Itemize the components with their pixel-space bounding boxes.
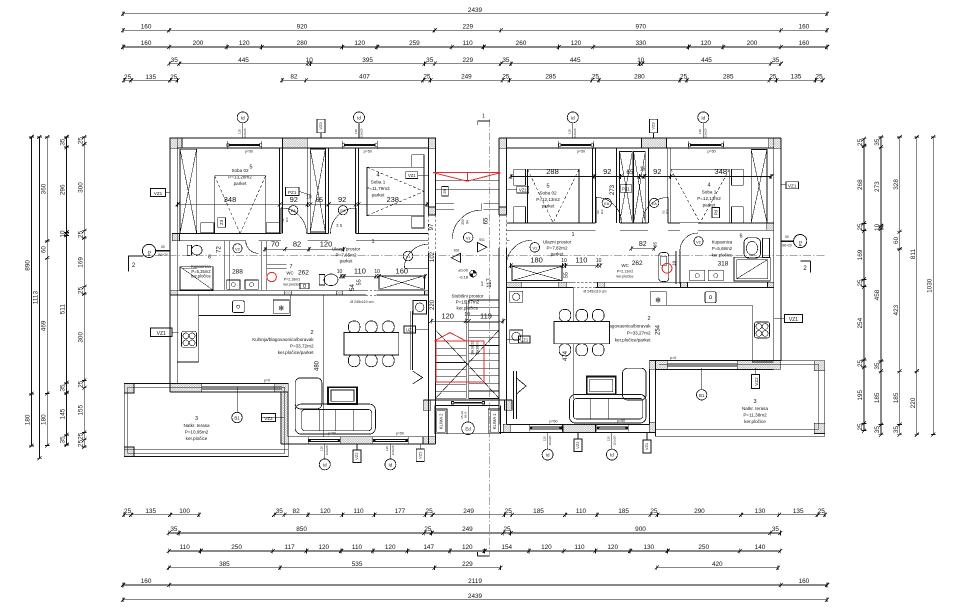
svg-text:445: 445 [701, 57, 712, 64]
circle marker EA right 1 [602, 198, 611, 207]
svg-text:72: 72 [217, 246, 223, 253]
svg-text:110x20: 110x20 [325, 445, 329, 455]
svg-text:3: 3 [753, 399, 756, 405]
label VZ1 left wall [151, 189, 171, 197]
room label Stubisni prostor [451, 282, 483, 311]
svg-text:P2: P2 [147, 250, 152, 256]
svg-text:82: 82 [293, 240, 301, 249]
window right living south 1 [530, 426, 563, 428]
svg-text:249: 249 [462, 526, 473, 533]
svg-text:6: 6 [739, 234, 742, 240]
svg-text:35: 35 [874, 426, 881, 434]
svg-text:parket: parket [703, 203, 716, 208]
svg-text:120: 120 [320, 508, 331, 515]
svg-text:407: 407 [359, 74, 370, 81]
svg-text:249: 249 [463, 508, 474, 515]
svg-text:120: 120 [541, 544, 552, 551]
svg-text:VZ3: VZ3 [318, 122, 323, 130]
svg-text:154: 154 [501, 544, 512, 551]
svg-text:900: 900 [635, 526, 646, 533]
WC room west wall left unit [262, 241, 267, 290]
svg-text:177: 177 [395, 508, 406, 515]
p=50 labels left living south windows [328, 432, 404, 436]
svg-text:P=7,65m2: P=7,65m2 [335, 253, 357, 258]
svg-text:P2: P2 [798, 240, 803, 246]
svg-text:Natkr. terasa: Natkr. terasa [742, 406, 768, 411]
WC pan right unit [659, 253, 669, 282]
label VZ1 kitchen left [151, 328, 179, 337]
svg-text:120: 120 [607, 544, 618, 551]
svg-text:229: 229 [462, 561, 473, 568]
svg-text:B1: B1 [699, 393, 705, 398]
svg-text:180: 180 [40, 414, 47, 425]
svg-text:82: 82 [290, 74, 298, 81]
room label Soba1 right unit [697, 183, 721, 208]
svg-text:318: 318 [718, 261, 729, 268]
svg-text:262: 262 [298, 270, 309, 277]
svg-text:35: 35 [171, 57, 179, 64]
svg-text:P=2,18m2: P=2,18m2 [284, 278, 300, 282]
svg-text:120: 120 [354, 40, 365, 47]
svg-text:110: 110 [463, 40, 474, 47]
section line 1 vertical dash-dot [477, 114, 490, 556]
label ZN rotated porch [442, 187, 449, 197]
dimension chain bottom rowA main [272, 508, 827, 517]
svg-text:920: 920 [297, 24, 308, 31]
svg-text:100: 100 [179, 508, 190, 515]
svg-text:160: 160 [141, 40, 152, 47]
svg-text:10: 10 [561, 258, 567, 264]
exterior wall right [780, 138, 782, 361]
circle marker V1 right [530, 243, 540, 253]
svg-text:10: 10 [637, 57, 645, 64]
wall bedrooms-hall left unit [172, 234, 428, 241]
svg-text:VZ1: VZ1 [788, 183, 797, 188]
left unit east-lower wall [281, 392, 288, 444]
svg-text:249: 249 [461, 74, 472, 81]
svg-text:Kupaonica: Kupaonica [712, 239, 733, 244]
bathroom wall left unit [224, 241, 229, 290]
label VZ2 rotated bottom right unit [574, 432, 582, 451]
svg-text:ker.pločice: ker.pločice [186, 436, 208, 441]
TV shelf right unit [514, 371, 527, 419]
svg-text:328: 328 [893, 179, 900, 190]
label PZ1 left unit [286, 187, 311, 195]
klima size note rotated [460, 411, 467, 419]
label UZ1 right [506, 336, 530, 343]
svg-text:160: 160 [799, 24, 810, 31]
kitchen wall right unit [506, 282, 773, 287]
svg-text:423: 423 [893, 304, 900, 315]
svg-text:1: 1 [371, 239, 374, 245]
svg-text:1: 1 [482, 549, 485, 555]
dimension chain top row1 total 2439 [121, 7, 829, 16]
left living south wall band [281, 437, 436, 444]
dimension chain top row3 [121, 40, 829, 49]
circle marker V2 left [233, 244, 242, 253]
svg-text:130: 130 [643, 544, 654, 551]
closet X box right hall [512, 266, 562, 280]
svg-text:PZ1: PZ1 [622, 187, 630, 192]
svg-text:25: 25 [857, 138, 864, 146]
svg-text:Id: Id [701, 115, 705, 120]
kitchen hob 4 circles left unit [182, 331, 197, 347]
p=50 labels right living south windows [549, 419, 625, 424]
svg-text:92: 92 [603, 167, 611, 176]
svg-text:25: 25 [769, 74, 777, 81]
svg-text:10: 10 [874, 223, 881, 231]
nightstand bottom Soba1 right [731, 207, 743, 223]
label VZ2 rotated bottom 1 [353, 444, 361, 463]
svg-text:Ulazni prostor: Ulazni prostor [543, 240, 572, 245]
svg-text:25: 25 [650, 508, 658, 515]
window in stair south wall [451, 401, 485, 404]
dimension chain right col1 [857, 137, 866, 433]
svg-text:Id: Id [389, 462, 393, 467]
svg-text:200: 200 [747, 40, 758, 47]
svg-text:169: 169 [78, 257, 85, 268]
svg-text:120: 120 [542, 436, 546, 441]
svg-text:V1: V1 [532, 246, 537, 250]
left terrace outline [124, 384, 288, 457]
svg-text:16: 16 [640, 166, 646, 172]
label VZ2 right terrace rotated [752, 368, 760, 389]
dimension row hall bottom left unit [337, 266, 427, 278]
hatched pier left living south-east corner [423, 437, 436, 444]
svg-text:1: 1 [571, 232, 574, 238]
svg-text:10: 10 [337, 269, 343, 275]
svg-text:Id: Id [610, 453, 614, 458]
svg-text:10: 10 [306, 57, 314, 64]
svg-text:145: 145 [60, 408, 67, 419]
partition Soba1 west right unit [668, 148, 671, 223]
left terrace column SW [124, 447, 134, 457]
red pipe circle left unit [267, 272, 276, 281]
porch floor edge lines [436, 180, 500, 190]
label VZ1 porch left [406, 172, 429, 179]
door arc Soba02 right unit [596, 198, 622, 224]
window marker Id bottom 4 [606, 432, 617, 460]
svg-text:P=13,28m2: P=13,28m2 [228, 175, 252, 180]
svg-text:35: 35 [170, 526, 178, 533]
partition wall Soba02 east [280, 148, 283, 233]
svg-text:60: 60 [893, 236, 900, 244]
svg-text:110: 110 [353, 508, 364, 515]
svg-text:parket: parket [234, 181, 247, 186]
svg-text:ker.pločice/parket: ker.pločice/parket [278, 350, 314, 355]
entry door arc right unit [506, 240, 532, 266]
svg-text:EA: EA [291, 209, 297, 213]
svg-text:185: 185 [893, 392, 900, 403]
washbasin 2 left [245, 280, 258, 289]
svg-text:200: 200 [193, 40, 204, 47]
dimension chain right col2 [874, 135, 883, 437]
svg-text:✻: ✻ [278, 305, 284, 313]
hatched pier top wall left-mid [283, 138, 308, 148]
svg-text:p=50: p=50 [245, 149, 253, 153]
nightstand top Soba1 left [412, 155, 424, 168]
svg-text:VZ2: VZ2 [418, 451, 423, 459]
dimension row hall right unit [509, 256, 603, 268]
svg-text:110: 110 [352, 544, 363, 551]
svg-text:P=15,97m2: P=15,97m2 [456, 300, 480, 305]
dimension chain bottom rowC [167, 544, 782, 553]
svg-text:Id: Id [571, 115, 575, 120]
window marker Id top 3 [567, 112, 578, 138]
svg-text:535: 535 [352, 561, 363, 568]
svg-text:259: 259 [409, 40, 420, 47]
svg-text:10: 10 [596, 258, 602, 264]
svg-text:110: 110 [600, 209, 604, 214]
stair center rails [466, 300, 469, 398]
svg-text:348: 348 [224, 195, 237, 204]
window marker Id top 4 [698, 112, 709, 138]
svg-text:10: 10 [672, 260, 677, 266]
bed Soba02 left unit [215, 176, 266, 234]
svg-text:3: 3 [195, 416, 198, 422]
svg-text:25: 25 [503, 526, 511, 533]
svg-text:135: 135 [791, 74, 802, 81]
svg-text:445: 445 [570, 57, 581, 64]
door arc V2 bathroom right [680, 233, 698, 251]
entry door swing arc [452, 204, 481, 240]
svg-text:P=12,13m2: P=12,13m2 [536, 197, 560, 202]
hatched pier top wall right-mid [642, 138, 667, 148]
klima 1 box [488, 409, 500, 434]
svg-text:110: 110 [180, 544, 191, 551]
svg-text:6: 6 [208, 255, 211, 261]
washing machine right unit bottom [510, 330, 523, 343]
svg-text:06-9: 06-9 [463, 412, 467, 418]
label VZ2 left terrace [262, 414, 285, 422]
svg-text:VZ2: VZ2 [354, 452, 359, 460]
svg-text:WC: WC [286, 271, 293, 276]
svg-text:185: 185 [618, 508, 629, 515]
svg-text:25: 25 [426, 508, 434, 515]
wardrobe left unit Soba02 [180, 149, 197, 233]
svg-text:UZ1: UZ1 [520, 338, 529, 343]
room label Ulazni prostor right [543, 232, 575, 257]
right terrace label [742, 399, 768, 424]
svg-text:254: 254 [857, 317, 864, 328]
kitchen hob 4 circles right unit [755, 322, 770, 338]
room label Ulazni prostor left [332, 239, 375, 264]
svg-text:1030: 1030 [926, 278, 933, 293]
WC room right labels [617, 263, 634, 279]
svg-text:110: 110 [354, 266, 366, 275]
window W3 top wall right unit [559, 144, 594, 146]
svg-text:970: 970 [635, 24, 646, 31]
svg-text:V2: V2 [696, 240, 701, 244]
svg-text:P=7,82m2: P=7,82m2 [546, 246, 568, 251]
svg-text:469: 469 [40, 320, 47, 331]
TV shelf left unit [410, 311, 422, 384]
label VZ1 right wall [781, 182, 799, 189]
bathroom west wall right unit [676, 251, 680, 284]
dimension chain top row5 left stub [122, 74, 179, 83]
floor finish divider right unit [572, 288, 574, 400]
svg-text:65: 65 [484, 217, 490, 224]
svg-text:p=0: p=0 [264, 379, 270, 383]
svg-text:135: 135 [793, 508, 804, 515]
svg-text:120: 120 [462, 544, 473, 551]
svg-text:p=50: p=50 [328, 432, 336, 436]
dimension chain left col5 [78, 135, 87, 449]
dimension chain top row4 [167, 57, 783, 66]
room label Kuhinja left unit [252, 330, 314, 355]
klima 2 box [435, 409, 447, 434]
svg-text:110x20: 110x20 [243, 128, 247, 138]
svg-text:70: 70 [271, 240, 279, 249]
dimension chain bottom rowB [167, 526, 783, 535]
svg-text:4: 4 [707, 183, 710, 189]
dining table left unit [344, 321, 399, 367]
svg-text:2: 2 [310, 330, 313, 336]
hatched pier right living south [563, 424, 596, 432]
right kitchen south wall band with terrace door p=0 [649, 356, 781, 370]
window marker Id bottom 3 [542, 432, 553, 460]
dimension chain bottom rowD right [655, 561, 780, 570]
svg-text:280: 280 [297, 40, 308, 47]
window marker Id bottom 1 [319, 444, 330, 470]
svg-text:360: 360 [40, 183, 47, 194]
svg-text:25: 25 [124, 508, 132, 515]
svg-text:VZ3: VZ3 [651, 122, 656, 130]
red canopy over entrance [433, 173, 500, 182]
shaft PZ1 left unit with X [310, 149, 325, 232]
stair treads left flight [436, 341, 467, 398]
label VZ3 rotated top 2 [650, 119, 658, 138]
svg-text:285: 285 [723, 74, 734, 81]
svg-text:B1: B1 [234, 416, 240, 421]
window W2 top wall [342, 144, 377, 146]
svg-text:B0+20: B0+20 [158, 253, 168, 257]
svg-text:KLIMA 1: KLIMA 1 [492, 413, 497, 429]
svg-text:VZ1: VZ1 [519, 188, 527, 193]
svg-text:273: 273 [610, 184, 616, 195]
svg-text:120: 120 [441, 311, 454, 320]
washing machine left unit [413, 301, 427, 315]
svg-text:2: 2 [647, 316, 650, 322]
nightstand left of bed Soba02 [201, 223, 214, 233]
label VZ1 porch right [506, 186, 529, 193]
entry landing below stair block [435, 405, 501, 433]
svg-text:229: 229 [462, 57, 473, 64]
svg-text:10: 10 [464, 312, 470, 318]
svg-text:ker.pločice: ker.pločice [284, 283, 301, 287]
svg-text:60: 60 [785, 235, 789, 239]
svg-text:811: 811 [910, 249, 917, 260]
svg-text:25: 25 [424, 526, 432, 533]
svg-text:290: 290 [694, 508, 705, 515]
right terrace outline [656, 361, 825, 437]
svg-text:25: 25 [680, 74, 688, 81]
circle marker B1 right terrace [697, 368, 707, 400]
svg-text:B0+20: B0+20 [782, 243, 792, 247]
svg-text:65: 65 [316, 197, 324, 204]
svg-text:Id: Id [323, 462, 327, 467]
partition wall Soba1 west [356, 148, 359, 233]
svg-text:ker.pločice: ker.pločice [191, 274, 211, 279]
svg-text:288: 288 [232, 269, 243, 276]
svg-text:35: 35 [502, 57, 510, 64]
svg-text:135: 135 [145, 74, 156, 81]
svg-text:25: 25 [423, 74, 431, 81]
svg-text:120: 120 [354, 129, 358, 134]
svg-text:S02: S02 [454, 249, 460, 253]
dimension 82 right bath lobby [629, 241, 656, 251]
shaft X box 1 right unit [620, 152, 633, 223]
hatched pier top-right corner [769, 138, 781, 148]
svg-text:285: 285 [545, 74, 556, 81]
svg-text:35: 35 [772, 57, 780, 64]
window marker Id top 1 [237, 112, 248, 138]
window marker Id top 2 [354, 112, 365, 138]
window W4 top wall right unit [689, 144, 724, 146]
svg-text:25: 25 [124, 74, 132, 81]
svg-text:Ed: Ed [465, 426, 471, 431]
svg-text:25: 25 [78, 380, 85, 388]
svg-text:250: 250 [231, 544, 242, 551]
svg-text:VZ2: VZ2 [264, 416, 273, 421]
bed Soba1 right unit [671, 169, 730, 222]
svg-text:35: 35 [60, 436, 67, 444]
washbasin 1 right [690, 270, 705, 281]
svg-text:VZ2: VZ2 [575, 441, 580, 449]
svg-text:160: 160 [141, 578, 152, 585]
svg-text:ker.pločice: ker.pločice [712, 252, 733, 257]
coffee table right unit [587, 377, 616, 395]
svg-text:300: 300 [78, 182, 85, 193]
svg-text:268: 268 [857, 179, 864, 190]
svg-text:55: 55 [357, 279, 363, 285]
svg-text:110: 110 [665, 209, 669, 214]
circle marker Ed [462, 405, 475, 434]
svg-text:Id: Id [241, 115, 245, 120]
left terrace label [183, 416, 209, 441]
dimension chain left col2 total 1113 [33, 135, 42, 460]
svg-text:Ulazni prostor: Ulazni prostor [332, 247, 361, 252]
hatched pier right kitchen south-east [737, 361, 781, 370]
svg-text:P=11,38m2: P=11,38m2 [743, 413, 767, 418]
svg-text:102: 102 [430, 251, 436, 262]
circle marker V1 left [403, 251, 413, 261]
svg-text:155: 155 [78, 404, 85, 415]
svg-text:EA: EA [340, 209, 346, 213]
left unit south kitchen wall band with terrace door p=0 [170, 379, 288, 392]
hatched pier top-left corner [170, 138, 182, 148]
svg-text:P=33,72m2: P=33,72m2 [290, 344, 314, 349]
vent triangle right [478, 243, 487, 252]
nightstand bottom Soba1 left [412, 216, 424, 228]
door arc Soba1 left unit [331, 208, 357, 234]
svg-text:V1: V1 [466, 236, 471, 240]
stair block south wall band [423, 400, 512, 410]
svg-text:25: 25 [78, 432, 85, 440]
coffee table left unit [328, 387, 357, 404]
svg-text:511: 511 [60, 304, 67, 315]
svg-text:420: 420 [712, 561, 723, 568]
dimension line bedrooms right unit [509, 166, 773, 179]
section line 2 horizontal dash-dot [128, 255, 825, 257]
svg-text:120: 120 [607, 436, 611, 441]
svg-text:Stubišni prostor: Stubišni prostor [451, 294, 483, 299]
window left living south 2 [373, 438, 408, 440]
svg-text:92: 92 [338, 195, 346, 204]
label UZ1 left [404, 326, 428, 333]
label VZ3 rotated top 1 [317, 119, 325, 138]
svg-text:250: 250 [698, 544, 709, 551]
